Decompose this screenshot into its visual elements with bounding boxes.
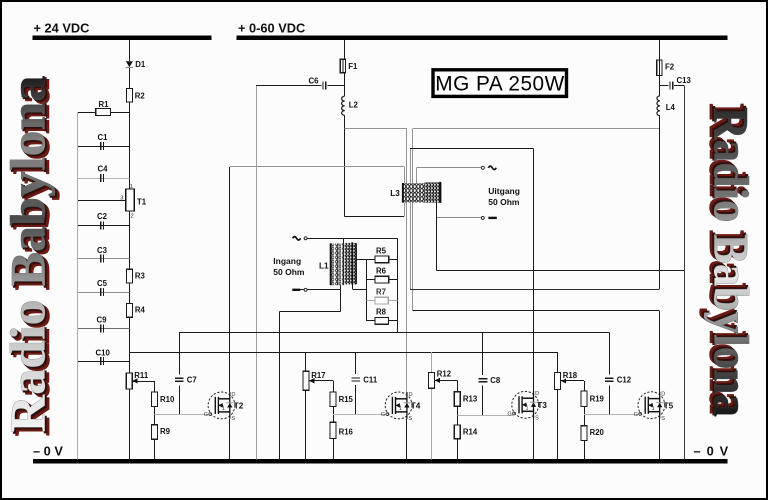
wire: R5 right xyxy=(389,259,398,261)
svg-text:S: S xyxy=(535,416,539,422)
wire: R1 to main column xyxy=(111,112,130,114)
capacitor C8 xyxy=(479,376,501,385)
capacitor C10 xyxy=(96,348,111,365)
wire: C3 row xyxy=(78,258,130,260)
svg-text:R16: R16 xyxy=(339,427,354,436)
wire: C11 to T4 gate line xyxy=(355,385,357,415)
wire: L1 secondary bottom leg xyxy=(352,284,354,289)
wire: C6 right lead to F1 column xyxy=(327,85,344,87)
svg-text:T5: T5 xyxy=(664,401,674,410)
svg-text:L3: L3 xyxy=(390,189,400,198)
wire: R10 to R9 (gate node) xyxy=(154,407,156,425)
wire: T5 source to 0V bar xyxy=(659,419,661,460)
wire: R2 to T1 pin 1 (through C1/C4 junctions) xyxy=(129,102,131,189)
resistor R20 xyxy=(581,426,605,441)
resistor R19 xyxy=(581,391,605,407)
svg-text:C6: C6 xyxy=(309,76,320,85)
trimmer resistor R11 xyxy=(126,371,149,389)
wire: 352 line down to R18 xyxy=(557,352,559,372)
svg-text:D1: D1 xyxy=(135,60,146,69)
svg-text:R1: R1 xyxy=(99,100,110,109)
svg-text:R5: R5 xyxy=(376,246,387,255)
wire: T4 source to 0V bar xyxy=(406,419,408,460)
svg-text:C9: C9 xyxy=(97,315,108,324)
svg-text:– 0 V: – 0 V xyxy=(694,443,730,458)
svg-text:R8: R8 xyxy=(376,308,387,317)
wire: R7 left (gray) xyxy=(366,300,375,302)
svg-text:C13: C13 xyxy=(677,76,692,85)
wire: R12 wiper to R13 column xyxy=(435,380,457,382)
svg-text:T4: T4 xyxy=(411,402,421,411)
wire: L3 secondary bottom down xyxy=(436,203,438,271)
svg-text:R11: R11 xyxy=(134,371,149,380)
wire: R18 bottom to 0V bar xyxy=(557,390,559,460)
svg-text:D: D xyxy=(535,391,539,397)
wire: C6 node down to L3 primary feed (gray) xyxy=(404,167,406,217)
wire: +0-60V bar down to F2 xyxy=(659,40,661,60)
fuse F1 xyxy=(340,59,358,73)
wire: R13 to R14 (gate node) xyxy=(457,406,459,425)
transistor T2 (N-MOSFET) xyxy=(204,392,244,422)
wire: bias distribution line C7 to C12 xyxy=(179,332,609,334)
wire: left rail to T1 pin 3 xyxy=(78,200,126,202)
wire: L1 to R5 left xyxy=(356,259,375,261)
svg-text:D: D xyxy=(231,392,235,398)
resistor R4 xyxy=(126,303,145,317)
wire: Ingang cold terminal to L1 bottom leg xyxy=(293,289,340,291)
svg-text:F2: F2 xyxy=(665,63,675,72)
resistor R5 xyxy=(375,246,389,262)
transformer L3 (output, hatched winding block) xyxy=(390,182,440,203)
resistor R13 xyxy=(454,392,478,406)
svg-text:T3: T3 xyxy=(537,401,547,410)
wire: output top line down to T3 drain xyxy=(533,148,535,391)
resistor R15 xyxy=(330,392,354,407)
svg-text:R7: R7 xyxy=(376,288,386,297)
wire: T2 source to 0V bar xyxy=(229,419,231,460)
svg-text:R12: R12 xyxy=(437,369,452,378)
wire: R5-R8 right bus down to bias line xyxy=(397,238,399,332)
wire: down to R10 top xyxy=(154,381,156,392)
wire: T3 gate line xyxy=(457,415,513,417)
wire: L1 secondary return down to 0V bar xyxy=(279,311,281,459)
svg-text:1: 1 xyxy=(652,406,655,412)
svg-text:R13: R13 xyxy=(463,395,478,404)
wire: left rail to R1 xyxy=(78,112,96,114)
decorative banner: Radio Babylona (right) xyxy=(700,104,760,418)
resistor R1 xyxy=(96,100,111,115)
title box MG PA 250W xyxy=(433,70,567,97)
svg-text:1: 1 xyxy=(526,405,529,411)
wire: +0-60V bar down to F1 xyxy=(344,40,346,59)
svg-text:R15: R15 xyxy=(339,395,354,404)
svg-text:R14: R14 xyxy=(463,428,478,437)
wire: bias line corner down to C12 xyxy=(609,332,611,374)
svg-text:C2: C2 xyxy=(97,212,108,221)
wire: T2 gate line xyxy=(154,414,209,416)
resistor R14 xyxy=(454,425,478,439)
wire: R8 right xyxy=(389,320,398,322)
svg-text:1: 1 xyxy=(130,184,133,190)
wire: B+ right segment down to 311 line (gray) xyxy=(412,128,414,311)
svg-text:R20: R20 xyxy=(590,428,605,437)
svg-text:R3: R3 xyxy=(135,272,146,281)
wire: T1 pin 2 down to R3 (through C2/C3 junctions) xyxy=(129,211,131,269)
wire: T3 source to 0V bar xyxy=(533,418,535,459)
wire: left rail (R1/C1..C10 left bus) xyxy=(77,112,79,459)
svg-text:R10: R10 xyxy=(160,395,175,404)
capacitor C7 xyxy=(175,376,197,385)
wire: T4 gate line xyxy=(333,414,386,416)
svg-text:G: G xyxy=(634,412,638,418)
Uitgang cold terminal (-) xyxy=(481,216,484,219)
wire: R11 bottom to 0V bar xyxy=(129,389,131,459)
L3 core bar left xyxy=(402,183,404,203)
diode D1 xyxy=(126,60,146,69)
wire: R8 left xyxy=(366,320,375,322)
svg-text:Ingang: Ingang xyxy=(273,256,301,266)
svg-text:C10: C10 xyxy=(96,348,111,357)
wire: input node line T2 drain to L3 feed (gray) xyxy=(230,166,404,168)
svg-text:C11: C11 xyxy=(363,375,378,384)
wire: R7 right (gray) xyxy=(388,300,397,302)
wire: R5-R8 left bus xyxy=(366,259,368,320)
svg-text:R2: R2 xyxy=(135,91,146,100)
svg-text:S: S xyxy=(661,416,665,422)
wire: 289 line to L4 column xyxy=(410,289,660,291)
wire: bias row down to R17 xyxy=(305,352,307,371)
capacitor C13 xyxy=(670,76,692,89)
transistor T1 xyxy=(120,184,147,220)
wire: L4 down to 289 corner xyxy=(659,116,661,289)
wire: C5 row xyxy=(78,292,130,294)
svg-text:G: G xyxy=(507,411,511,417)
wire: D1 cathode to R2 xyxy=(129,68,131,89)
wire: R17 wiper to R15 column xyxy=(309,380,333,382)
svg-text:L2: L2 xyxy=(349,101,359,110)
wire: bias line down to C8 xyxy=(482,332,484,375)
wire: R6 right xyxy=(389,279,398,281)
capacitor C3 xyxy=(97,246,108,263)
wire: C9 row xyxy=(78,328,130,330)
wire: output network top line xyxy=(410,148,533,150)
wire: B+ distribution right segment (gray) xyxy=(413,128,660,130)
wire: R3 to R4 xyxy=(129,283,131,303)
svg-text:1: 1 xyxy=(222,406,225,412)
wire: L2 feed to L3 primary corner xyxy=(345,216,404,218)
svg-text:C5: C5 xyxy=(97,279,108,288)
transistor T5 (N-MOSFET) xyxy=(634,392,674,422)
+24 VDC bus bar xyxy=(33,36,212,40)
capacitor C4 xyxy=(98,165,109,182)
svg-text:D: D xyxy=(661,392,665,398)
wire: C4 row (gray) xyxy=(78,178,130,180)
transistor T3 (N-MOSFET) xyxy=(507,391,547,421)
capacitor C1 xyxy=(98,133,109,150)
L1 core bar left xyxy=(330,243,332,285)
svg-text:Uitgang: Uitgang xyxy=(488,186,520,196)
wire: C2 row xyxy=(78,225,130,227)
wire: L3 return to Uitgang cold terminal xyxy=(436,217,481,219)
svg-text:R18: R18 xyxy=(563,371,578,380)
capacitor C12 xyxy=(605,375,632,384)
svg-text:T1: T1 xyxy=(137,197,147,206)
svg-text:L4: L4 xyxy=(666,103,676,112)
wire: 311 line to T5 drain corner xyxy=(413,310,660,312)
resistor R3 xyxy=(126,269,145,283)
svg-text:2: 2 xyxy=(131,214,134,220)
svg-text:C1: C1 xyxy=(98,133,109,142)
wire: Ingang hot terminal to L1 top / right bus xyxy=(306,238,398,240)
wire: C13 left lead xyxy=(660,85,669,87)
resistor R2 xyxy=(126,89,145,103)
svg-text:Radio Babylona: Radio Babylona xyxy=(704,107,760,417)
wire: secondary leg to R5-R8 left bus xyxy=(352,289,366,291)
svg-text:+ 24 VDC: + 24 VDC xyxy=(34,21,90,36)
transistor T4 (N-MOSFET) xyxy=(381,392,421,422)
resistor R10 xyxy=(151,392,175,407)
wire: R9 to 0V bar xyxy=(154,439,156,459)
wire: R15 to R16 (gate node) xyxy=(333,407,335,423)
wire: C10 row xyxy=(78,361,130,363)
wire: C8 to T3 gate line xyxy=(482,386,484,416)
svg-text:– 0 V: – 0 V xyxy=(33,443,63,458)
L1 core bar right xyxy=(351,242,353,284)
decorative banner: Radio Babylona (left) xyxy=(0,76,60,437)
trimmer resistor R17 xyxy=(303,371,326,390)
capacitor C5 xyxy=(97,279,108,296)
wire: 270 line to C13 column xyxy=(436,270,684,272)
wire: trimmer supply line xyxy=(129,352,557,354)
capacitor C11 xyxy=(351,375,377,384)
wire: 352 line down to R12 (gray) xyxy=(431,352,433,373)
capacitor C6 xyxy=(309,76,326,89)
wire: R14 to 0V bar xyxy=(457,439,459,460)
resistor R9 xyxy=(151,425,170,440)
svg-text:C7: C7 xyxy=(187,376,197,385)
wire: C6 left lead xyxy=(256,85,322,87)
wire: R11 wiper to R10 column xyxy=(133,381,155,383)
svg-text:MG PA 250W: MG PA 250W xyxy=(435,73,564,96)
wire: R17 bottom to 0V bar xyxy=(305,390,307,459)
L3 core bar right xyxy=(439,182,441,203)
svg-text:R19: R19 xyxy=(590,395,605,404)
svg-text:G: G xyxy=(381,412,385,418)
wire: output hot down into L3 secondary (gray) xyxy=(416,168,418,184)
resistor R8 xyxy=(375,308,389,324)
wire: down to R15 top xyxy=(333,381,335,392)
Uitgang hot terminal (~) xyxy=(481,166,484,169)
wire: T2 drain up to input node line xyxy=(229,167,231,392)
wire: R19 to R20 (gate node) xyxy=(584,407,586,426)
capacitor C2 xyxy=(97,212,108,229)
svg-text:+ 0-60 VDC: + 0-60 VDC xyxy=(238,21,305,36)
svg-text:R9: R9 xyxy=(160,427,171,436)
wire: L1 return to 279 corner xyxy=(280,311,341,313)
resistor R7 xyxy=(375,288,388,304)
svg-text:R6: R6 xyxy=(376,267,387,276)
svg-text:D: D xyxy=(409,392,413,398)
wire: L2 down to L3 feed corner xyxy=(344,115,346,216)
trimmer resistor R12 xyxy=(429,369,452,388)
wire: output box top down to 289 line (gray) xyxy=(410,148,412,289)
svg-text:R4: R4 xyxy=(135,306,146,315)
wire: 311 corner down to T5 drain xyxy=(659,311,661,392)
capacitor C9 xyxy=(97,315,108,332)
Ingang cold terminal (-) xyxy=(304,288,307,291)
wire: R6 left xyxy=(366,279,375,281)
wire: B+ line down to T4 drain (gray) xyxy=(406,128,408,392)
transformer L1 (input, hatched winding block) xyxy=(319,242,356,285)
wire: C12 to T5 gate line xyxy=(609,386,611,415)
wire: 352 line down to C11 xyxy=(355,352,357,374)
trimmer resistor R18 xyxy=(555,371,578,390)
inductor L4 xyxy=(657,96,676,116)
svg-text:C12: C12 xyxy=(617,375,632,384)
wire: B+ distribution left segment (gray) xyxy=(345,128,407,130)
wire: down to R19 top xyxy=(584,381,586,391)
svg-text:L1: L1 xyxy=(319,262,329,271)
wire: C1 row xyxy=(78,146,130,148)
wire: F1 to L2 (C6 junction) xyxy=(344,73,346,96)
svg-text:G: G xyxy=(204,412,208,418)
wire: R4 down to R11 (through C9/C10/bias junctions) xyxy=(129,317,131,373)
wire: C7 to T2 gate line xyxy=(179,385,181,414)
wire: L1 primary bottom leg xyxy=(340,285,342,311)
svg-text:C3: C3 xyxy=(97,246,108,255)
svg-text:S: S xyxy=(409,416,413,422)
resistor R16 xyxy=(330,422,354,438)
svg-text:S: S xyxy=(231,416,235,422)
svg-text:50 Ohm: 50 Ohm xyxy=(273,267,305,277)
svg-text:T2: T2 xyxy=(234,402,244,411)
wire: R20 to 0V bar xyxy=(584,440,586,459)
wire: C13 right column down to 0V bar xyxy=(684,85,686,459)
wire: R16 to 0V bar xyxy=(333,439,335,460)
fuse F2 xyxy=(657,60,675,76)
resistor R6 xyxy=(375,267,389,284)
wire: +24V bar down to D1 anode xyxy=(129,40,131,61)
svg-text:C4: C4 xyxy=(98,165,109,174)
svg-text:R17: R17 xyxy=(311,371,325,380)
wire: bias line down to C7 xyxy=(179,332,181,374)
wire: T5 gate line xyxy=(584,414,639,416)
wire: C6 left plate down to 0V bar (gray) xyxy=(256,85,258,459)
svg-text:1: 1 xyxy=(399,406,402,412)
wire: R18 wiper to R19 column xyxy=(561,380,584,382)
svg-text:C8: C8 xyxy=(490,376,501,385)
wire: C13 right lead xyxy=(674,85,684,87)
wire: L1 input node into primary top xyxy=(343,238,345,243)
+0-60 VDC bus bar xyxy=(237,36,728,40)
wire: R12 bottom to 0V bar (gray) xyxy=(431,388,433,459)
Ingang hot terminal (~) xyxy=(304,237,307,240)
wire: F2 to L4 (C13 junction) xyxy=(659,76,661,96)
svg-text:3: 3 xyxy=(120,196,123,202)
wire: L3 secondary to Uitgang hot terminal xyxy=(416,167,481,169)
wire: down to R13 top xyxy=(457,380,459,391)
svg-text:F1: F1 xyxy=(348,62,358,71)
0 V ground bus bar xyxy=(33,459,728,464)
inductor L2 xyxy=(342,96,359,115)
svg-text:50 Ohm: 50 Ohm xyxy=(488,197,520,207)
svg-text:Radio Babylona: Radio Babylona xyxy=(0,76,56,433)
